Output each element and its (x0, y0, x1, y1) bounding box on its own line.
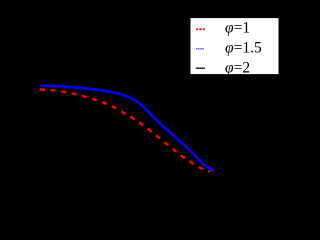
curve phi=1.5 (blue dashed) (40, 86, 214, 171)
legend sample phi=2 (dark solid) (196, 67, 205, 69)
legend box (191, 18, 279, 74)
legend sample phi=1 (red dashes) (196, 28, 205, 30)
curve phi=1 (red dashed) (40, 90, 210, 172)
svg-text:φ=1: φ=1 (225, 20, 250, 37)
curve phi=1.5 (blue underlay) (40, 86, 214, 171)
svg-text:φ=1.5: φ=1.5 (225, 40, 262, 57)
svg-text:φ=2: φ=2 (225, 59, 250, 76)
legend sample phi=1.5 (blue dashes) (196, 48, 205, 50)
